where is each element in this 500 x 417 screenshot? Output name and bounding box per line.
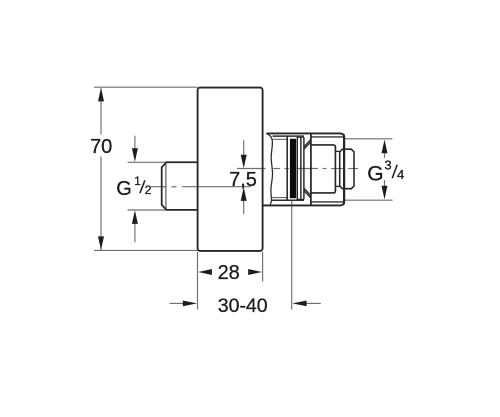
svg-text:4: 4 — [397, 167, 404, 182]
svg-text:30-40: 30-40 — [218, 295, 268, 317]
svg-text:28: 28 — [218, 262, 240, 284]
svg-text:7,5: 7,5 — [229, 169, 257, 191]
svg-text:1: 1 — [134, 174, 141, 188]
svg-text:70: 70 — [90, 136, 112, 158]
svg-text:G: G — [367, 163, 383, 186]
svg-text:G: G — [116, 178, 132, 200]
svg-text:3: 3 — [384, 158, 391, 173]
svg-text:2: 2 — [145, 183, 152, 197]
